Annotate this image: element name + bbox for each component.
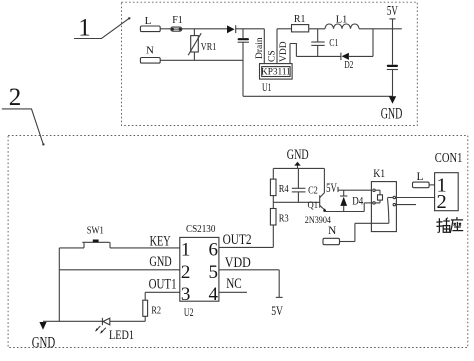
wire xyxy=(182,28,227,30)
svg-text:R1: R1 xyxy=(294,14,306,25)
svg-text:F1: F1 xyxy=(172,15,183,26)
ground (top box) xyxy=(389,96,396,104)
svg-text:KP3111: KP3111 xyxy=(261,68,291,78)
svg-text:5V: 5V xyxy=(387,3,398,18)
wire xyxy=(359,28,402,30)
svg-text:Q1: Q1 xyxy=(308,201,319,211)
svg-text:Drain: Drain xyxy=(255,37,265,59)
ground (up arrow) xyxy=(297,166,299,169)
svg-text:NC: NC xyxy=(226,276,242,292)
svg-text:2: 2 xyxy=(181,262,191,283)
svg-text:2: 2 xyxy=(436,191,446,213)
svg-text:R2: R2 xyxy=(151,304,161,316)
wire OUT1 pin3 xyxy=(145,291,180,293)
transistor Q1 xyxy=(319,195,321,207)
svg-text:KEY: KEY xyxy=(150,234,171,250)
svg-text:GND: GND xyxy=(381,105,403,122)
svg-text:K1: K1 xyxy=(373,166,385,180)
svg-text:L: L xyxy=(416,171,423,183)
resistor R4 xyxy=(270,179,276,196)
svg-text:U2: U2 xyxy=(184,307,194,319)
svg-text:SW1: SW1 xyxy=(87,226,104,237)
svg-text:CS: CS xyxy=(268,50,278,62)
wire OUT2 xyxy=(219,246,273,248)
svg-text:L: L xyxy=(145,15,152,27)
svg-text:LED1: LED1 xyxy=(109,328,134,342)
diode D2 xyxy=(340,53,342,61)
wire (ground rail top box) xyxy=(243,95,393,97)
svg-text:R3: R3 xyxy=(279,213,289,225)
pin CS xyxy=(276,29,278,64)
svg-text:5V: 5V xyxy=(271,303,283,318)
svg-text:1: 1 xyxy=(181,240,191,261)
wire VDD pin5 xyxy=(219,269,279,271)
wire (emitter row) xyxy=(324,211,365,213)
svg-text:6: 6 xyxy=(208,240,218,261)
svg-text:R4: R4 xyxy=(279,183,289,195)
wire contact to CON1 xyxy=(396,197,435,199)
svg-text:D2: D2 xyxy=(344,59,353,71)
wire contact stub xyxy=(396,204,417,206)
svg-text:C1: C1 xyxy=(329,37,338,49)
resistor R2 xyxy=(144,292,146,300)
wire NC stub xyxy=(219,291,247,293)
svg-text:5V: 5V xyxy=(326,181,337,195)
relay contact xyxy=(393,196,395,198)
svg-text:VDD: VDD xyxy=(225,255,251,271)
capacitor (bulk, unlabeled) xyxy=(242,29,244,38)
wire (base node) xyxy=(273,201,319,203)
svg-text:N: N xyxy=(146,45,154,57)
svg-text:CON1: CON1 xyxy=(435,150,463,165)
capacitor C1 xyxy=(317,29,319,42)
svg-text:OUT1: OUT1 xyxy=(149,276,177,292)
svg-text:N: N xyxy=(328,225,337,237)
svg-text:VR1: VR1 xyxy=(201,41,217,53)
pin Drain xyxy=(263,29,265,64)
svg-text:GND: GND xyxy=(287,147,309,163)
LED LED1 xyxy=(101,318,103,325)
diode D1 xyxy=(227,25,235,33)
wire xyxy=(160,28,171,30)
varistor VR1 xyxy=(193,29,195,36)
capacitor (output electrolytic) xyxy=(387,65,398,67)
svg-text:2: 2 xyxy=(9,84,22,111)
svg-text:C2: C2 xyxy=(308,185,318,197)
svg-text:5: 5 xyxy=(208,262,218,283)
wire xyxy=(236,28,265,30)
label socket (Chinese) xyxy=(436,217,463,233)
wire (left rail) xyxy=(58,248,60,321)
wire (led row) xyxy=(43,320,145,322)
leader line 1 xyxy=(74,19,129,39)
svg-text:3: 3 xyxy=(181,284,191,305)
wire N xyxy=(160,59,243,61)
op-chip U1 KP3111 xyxy=(260,64,293,80)
diode D4 xyxy=(343,190,345,196)
wire xyxy=(349,55,373,57)
wire GND pin2 xyxy=(59,269,180,271)
svg-text:1: 1 xyxy=(78,15,91,42)
svg-text:D4: D4 xyxy=(352,193,363,207)
resistor R3 xyxy=(270,209,276,226)
leader line 2 xyxy=(2,109,43,144)
svg-text:GND: GND xyxy=(149,254,171,270)
wire xyxy=(309,28,325,30)
dashed box 1 xyxy=(122,2,418,125)
svg-text:U1: U1 xyxy=(262,82,272,94)
ground (bottom left) xyxy=(39,322,46,330)
svg-text:GND: GND xyxy=(32,334,56,351)
wire (VDD rail) xyxy=(296,55,341,57)
capacitor C2 xyxy=(297,168,299,188)
svg-text:OUT2: OUT2 xyxy=(223,232,252,248)
wire (top rail box2) xyxy=(273,167,324,169)
dashed box 2 xyxy=(8,136,468,348)
svg-text:4: 4 xyxy=(208,284,218,305)
svg-text:CS2130: CS2130 xyxy=(186,223,216,235)
svg-text:VDD: VDD xyxy=(279,41,289,62)
pin VDD xyxy=(289,44,291,64)
